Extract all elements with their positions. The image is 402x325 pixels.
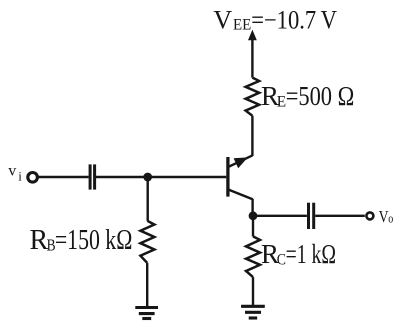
svg-text:o: o	[388, 212, 393, 226]
svg-text:v: v	[8, 163, 16, 180]
svg-text:=−10.7 V: =−10.7 V	[251, 6, 337, 35]
svg-text:V: V	[213, 6, 232, 35]
svg-text:EE: EE	[233, 17, 251, 34]
svg-text:E: E	[277, 94, 286, 111]
svg-text:=1 kΩ: =1 kΩ	[286, 239, 336, 269]
svg-text:=150 kΩ: =150 kΩ	[55, 225, 132, 256]
svg-text:=500 Ω: =500 Ω	[286, 81, 355, 111]
svg-text:i: i	[18, 169, 22, 184]
